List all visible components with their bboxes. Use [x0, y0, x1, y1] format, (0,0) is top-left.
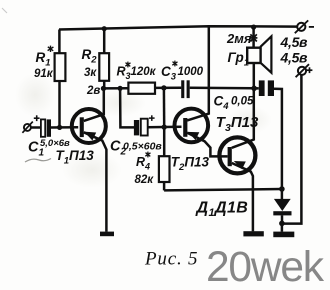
svg-text:Рис. 5: Рис. 5	[144, 249, 198, 270]
label C2	[110, 139, 162, 158]
node junction R1/C1/base	[57, 125, 62, 130]
node minus terminal	[295, 20, 314, 33]
wire R2 branch	[103, 29, 106, 89]
capacitor C3	[181, 80, 190, 98]
resistor R3	[128, 83, 155, 94]
wire collector node to R3	[104, 87, 129, 90]
ground under T3 emitter	[243, 231, 263, 236]
speaker Gr1	[247, 36, 271, 72]
wire C4 right down to rail	[274, 89, 282, 189]
node junction speaker bottom / C4 / T3 collector	[251, 86, 257, 92]
wire C2 to T2 base	[148, 125, 182, 128]
svg-text:2в: 2в	[86, 85, 100, 97]
resistor R4	[159, 156, 170, 182]
node junction diode cathode	[279, 221, 285, 227]
transistor T2	[175, 26, 228, 156]
wire to C4	[254, 87, 259, 90]
label C3	[161, 61, 204, 83]
scratch artifact top left	[2, 8, 7, 13]
svg-text:1000: 1000	[178, 66, 204, 78]
capacitor C2	[134, 115, 155, 135]
svg-text:0,05: 0,05	[231, 96, 254, 108]
resistor R2	[99, 53, 109, 81]
wire bottom rail R4 to diode	[164, 189, 282, 190]
wire input to C1	[31, 126, 41, 129]
svg-text:Т2П13: Т2П13	[171, 154, 210, 173]
node junction speaker top rail	[251, 25, 256, 30]
svg-text:С3: С3	[161, 64, 177, 83]
node junction C2 left drop	[118, 86, 123, 91]
label R1	[34, 46, 54, 80]
ground under diode	[273, 232, 294, 238]
capacitor C1	[41, 119, 51, 136]
svg-text:R1: R1	[36, 50, 51, 69]
pencil mark under C1 label	[25, 159, 51, 163]
wire drop to C2 left	[120, 88, 134, 127]
svg-text:Гр1: Гр1	[228, 50, 250, 69]
svg-text:91к: 91к	[34, 68, 54, 80]
svg-text:3к: 3к	[84, 67, 97, 79]
svg-text:4,5в: 4,5в	[280, 50, 309, 66]
svg-text:2мя: 2мя	[226, 31, 252, 46]
node junction T2 base / R4	[162, 124, 167, 129]
capacitor C4	[259, 80, 274, 96]
wire R4 branch	[163, 127, 166, 190]
node junction R2 top rail	[102, 26, 107, 31]
label current 2ma	[226, 31, 257, 46]
svg-text:20wek: 20wek	[206, 244, 325, 290]
svg-text:С4: С4	[214, 94, 230, 113]
svg-text:Д1Д1В: Д1Д1В	[195, 199, 249, 219]
label R2	[82, 47, 98, 79]
label R4	[135, 152, 155, 186]
resistor R1	[55, 53, 66, 81]
label C1	[28, 138, 70, 159]
svg-text:R2: R2	[82, 47, 98, 66]
label C4	[214, 94, 254, 113]
wire R3 to C3	[155, 86, 181, 89]
svg-text:0,5×60в: 0,5×60в	[123, 141, 162, 153]
wire diode cathode to ground	[281, 223, 284, 231]
wire drop R3 right to base node	[163, 88, 166, 127]
node input terminal	[22, 115, 39, 133]
svg-text:4,5в: 4,5в	[280, 34, 309, 50]
node plus terminal	[296, 64, 313, 77]
node junction T1 collector	[101, 86, 106, 91]
svg-text:120к: 120к	[131, 66, 157, 78]
wire C1 to T1 base	[51, 126, 78, 129]
label R3	[117, 62, 157, 81]
diode D1	[273, 189, 291, 223]
wire C3 right to speaker node	[190, 87, 255, 90]
wire from plus terminal down to diode cathode	[282, 75, 302, 224]
transistor T3	[219, 88, 255, 231]
node junction rail / diode anode	[279, 186, 285, 192]
svg-text:Т3П13: Т3П13	[216, 114, 259, 134]
node junction R3 right	[161, 85, 166, 90]
transistor T1	[72, 88, 107, 231]
wire top supply rail	[59, 26, 297, 29]
svg-text:82к: 82к	[135, 174, 155, 186]
wire R1 branch	[58, 30, 61, 128]
wire speaker branch	[252, 27, 255, 88]
ground under T1 emitter	[100, 232, 114, 237]
